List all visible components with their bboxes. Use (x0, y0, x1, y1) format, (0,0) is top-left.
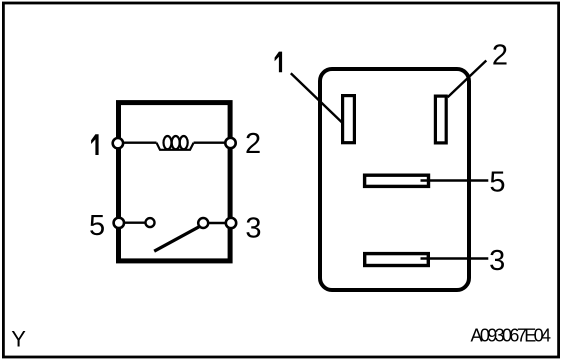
terminal 1 (113, 138, 123, 148)
connector housing (320, 69, 469, 290)
pin 3 slot (365, 254, 429, 266)
label pin 1 right (275, 52, 283, 73)
wire coil left (118, 141, 157, 143)
svg-text:2: 2 (492, 39, 508, 71)
svg-text:Y: Y (11, 327, 26, 352)
leader pin 1 (291, 73, 342, 122)
coil L1 (157, 136, 194, 150)
wire coil right (194, 141, 231, 143)
terminal 5 (114, 218, 124, 228)
leader pin 2 (448, 61, 487, 98)
svg-text:A093067E04: A093067E04 (471, 326, 552, 346)
relay box (119, 103, 231, 261)
terminal 3 (226, 218, 236, 228)
pin 5 slot (365, 175, 429, 186)
svg-text:5: 5 (489, 167, 505, 199)
fixed contact (146, 218, 155, 227)
terminal 2 (225, 138, 235, 148)
leader pin 5 (421, 179, 489, 181)
wire contact 3 (208, 222, 231, 224)
svg-text:2: 2 (245, 128, 261, 160)
switch arm (154, 227, 199, 251)
svg-text:5: 5 (89, 210, 105, 242)
wire contact 5 (118, 221, 146, 223)
moving contact (198, 218, 208, 228)
svg-text:3: 3 (245, 213, 261, 245)
label pin 1 left (91, 134, 99, 155)
svg-text:3: 3 (489, 245, 505, 277)
pin 2 slot (435, 96, 446, 143)
pin 1 slot (343, 96, 355, 143)
leader pin 3 (421, 257, 489, 259)
